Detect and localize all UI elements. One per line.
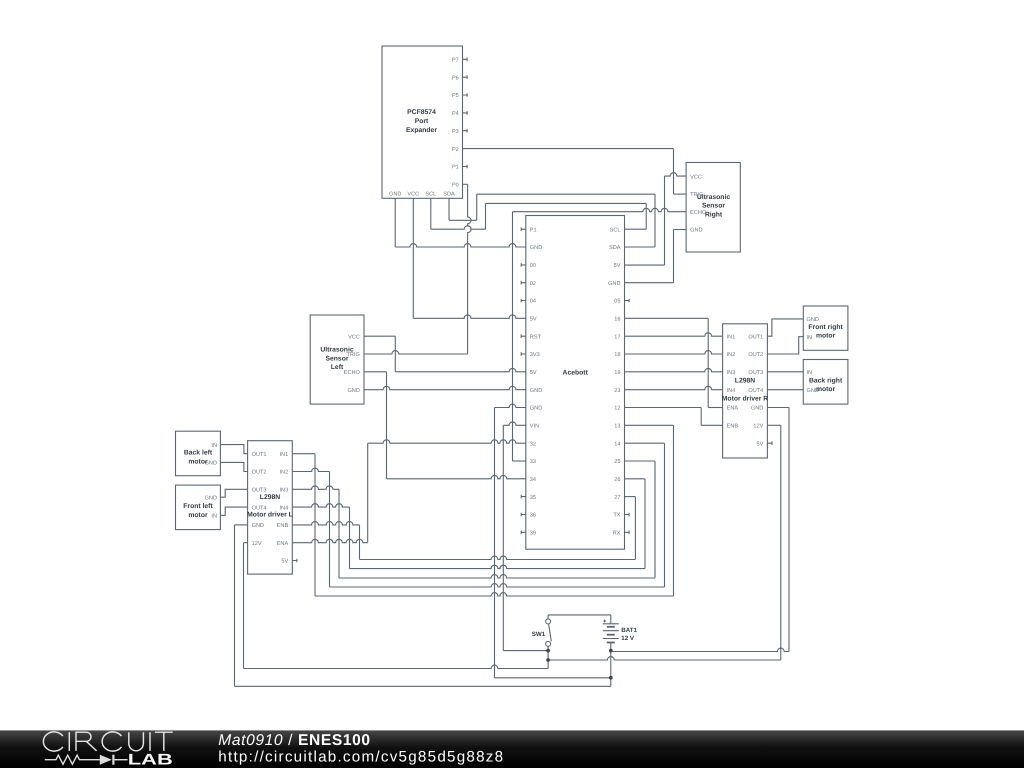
motor M3 front right box <box>803 306 848 350</box>
svg-text:5V: 5V <box>530 317 537 323</box>
wire battery negative lead <box>610 643 612 687</box>
svg-text:33: 33 <box>530 459 536 465</box>
svg-text:motor: motor <box>188 512 208 519</box>
svg-text:SCL: SCL <box>610 227 621 233</box>
svg-text:ENA: ENA <box>727 406 739 412</box>
svg-text:OUT1: OUT1 <box>748 334 763 340</box>
svg-text:Mat0910 / ENES100: Mat0910 / ENES100 <box>218 732 370 749</box>
wire P2 to TRIG right <box>463 148 674 150</box>
wire pin 16 to ENA right <box>625 317 709 319</box>
svg-text:34: 34 <box>530 477 536 483</box>
svg-text:TX: TX <box>613 513 620 519</box>
svg-text:ECHO: ECHO <box>690 210 707 216</box>
svg-text:IN4: IN4 <box>279 505 288 511</box>
svg-text:16: 16 <box>614 317 620 323</box>
wire VCC PCF8574 to Acebott 5V <box>412 198 414 318</box>
svg-text:SCL: SCL <box>425 191 436 197</box>
svg-text:IN: IN <box>211 514 217 520</box>
svg-text:IN: IN <box>211 443 217 449</box>
svg-text:GND: GND <box>807 317 819 323</box>
svg-text:Right: Right <box>705 211 723 218</box>
wire VCC ultrasonic left to Acebott 5V <box>364 335 395 337</box>
svg-text:ENA: ENA <box>277 541 289 547</box>
svg-text:http://circuitlab.com/cv5g85d5: http://circuitlab.com/cv5g85d5g88z8 <box>218 749 504 766</box>
svg-text:39: 39 <box>530 531 536 537</box>
svg-text:ECHO: ECHO <box>344 370 361 376</box>
battery BAT1 12V <box>603 623 619 625</box>
svg-text:VCC: VCC <box>348 334 360 340</box>
wire GND ultrasonic left to Acebott GND <box>364 386 526 389</box>
svg-text:ENB: ENB <box>277 523 289 529</box>
ultrasonic sensor left box U4 <box>310 315 364 404</box>
wire pin 14 to IN2 left <box>625 442 665 444</box>
svg-text:GND: GND <box>807 388 819 394</box>
svg-text:Front left: Front left <box>183 503 213 510</box>
wire pin 12 to ENB right <box>625 407 702 409</box>
svg-text:TRIG: TRIG <box>347 352 360 358</box>
svg-text:GND: GND <box>252 523 264 529</box>
svg-text:26: 26 <box>614 477 620 483</box>
svg-text:Motor driver R: Motor driver R <box>722 395 769 402</box>
svg-text:RST: RST <box>530 334 542 340</box>
svg-text:VIN: VIN <box>530 424 539 430</box>
wire ECHO right to pin 33 <box>513 208 687 211</box>
svg-text:17: 17 <box>614 334 620 340</box>
wire SCL net <box>430 198 432 229</box>
svg-text:P5: P5 <box>452 93 459 99</box>
motor driver right box U5 L298N <box>723 324 768 458</box>
svg-text:+: + <box>603 619 607 625</box>
motor driver left box U6 L298N <box>248 441 293 574</box>
svg-text:12V: 12V <box>753 424 763 430</box>
junction battery negative <box>609 649 613 653</box>
svg-text:OUT3: OUT3 <box>748 370 763 376</box>
svg-text:P4: P4 <box>452 111 459 117</box>
svg-text:OUT3: OUT3 <box>252 488 267 494</box>
wire pin 27 to ENB left <box>625 496 636 498</box>
svg-text:12 V: 12 V <box>621 635 635 642</box>
svg-text:GND: GND <box>389 191 401 197</box>
wire Acebott GND to battery negative <box>495 404 526 407</box>
svg-text:GND: GND <box>530 388 542 394</box>
svg-text:IN: IN <box>807 335 813 341</box>
footer bar <box>0 730 1024 768</box>
junction battery negative to GND rail <box>609 676 613 680</box>
wire GND ultrasonic right to Acebott GND <box>674 229 687 231</box>
wire GND right driver to battery negative <box>767 407 789 409</box>
svg-text:35: 35 <box>530 495 536 501</box>
wire 5V Acebott to VCC ultrasonic right <box>625 264 665 266</box>
svg-text:GND: GND <box>608 281 620 287</box>
svg-text:23: 23 <box>614 388 620 394</box>
svg-text:13: 13 <box>614 424 620 430</box>
svg-text:LAB: LAB <box>128 752 173 768</box>
wire ECHO left to pin 34 <box>364 371 387 373</box>
svg-text:32: 32 <box>530 441 536 447</box>
svg-text:VCC: VCC <box>407 191 419 197</box>
svg-text:Front right: Front right <box>808 324 843 331</box>
motor M4 back right box <box>803 360 848 405</box>
wire pin 18 to IN2 right <box>625 351 723 354</box>
wire pin 32 to ENA left <box>368 440 526 443</box>
svg-text:OUT4: OUT4 <box>252 505 267 511</box>
svg-text:SW1: SW1 <box>532 631 546 638</box>
svg-text:02: 02 <box>530 281 536 287</box>
op-amp U1 PCF8574 Port Expander box <box>382 46 463 198</box>
svg-text:L298N: L298N <box>735 377 755 384</box>
svg-text:OUT1: OUT1 <box>252 452 267 458</box>
wire OUT3 left to front left GND <box>220 489 247 497</box>
svg-text:GND: GND <box>751 406 763 412</box>
svg-text:19: 19 <box>614 370 620 376</box>
svg-text:3V3: 3V3 <box>530 352 540 358</box>
wire pin 19 to IN3 right <box>625 368 723 371</box>
junction at switch bottom <box>546 649 550 653</box>
wire P0 to TRIG left <box>463 183 468 185</box>
svg-text:Back left: Back left <box>184 450 213 457</box>
svg-text:VCC: VCC <box>690 174 702 180</box>
svg-text:P1: P1 <box>530 227 537 233</box>
svg-text:5V: 5V <box>756 441 763 447</box>
wire OUT2 right to front right IN <box>767 337 803 354</box>
wire GND PCF8574 to Acebott GND <box>394 198 396 247</box>
svg-text:12: 12 <box>614 406 620 412</box>
svg-text:IN2: IN2 <box>727 352 736 358</box>
svg-text:GND: GND <box>530 406 542 412</box>
wire OUT4 left to front left IN <box>220 507 247 515</box>
wire OUT1 right to front right GND <box>767 319 803 336</box>
svg-text:18: 18 <box>614 352 620 358</box>
svg-text:SDA: SDA <box>609 245 621 251</box>
svg-text:BAT1: BAT1 <box>621 627 637 634</box>
svg-text:05: 05 <box>614 299 620 305</box>
svg-text:Expander: Expander <box>406 127 437 134</box>
svg-text:12V: 12V <box>252 541 262 547</box>
svg-text:GND: GND <box>205 495 217 501</box>
svg-text:IN: IN <box>807 370 813 376</box>
svg-text:PCF8574: PCF8574 <box>407 109 436 116</box>
svg-text:L298N: L298N <box>260 494 280 501</box>
CircuitLab logo resistor diode glyph <box>45 755 100 764</box>
wire OUT2 left to back left GND <box>220 462 247 471</box>
svg-text:GND: GND <box>530 245 542 251</box>
svg-text:5V: 5V <box>281 559 288 565</box>
svg-text:Sensor: Sensor <box>702 203 725 210</box>
motor M2 front left box <box>176 485 221 529</box>
wire pin 26 to IN4 left <box>625 478 646 480</box>
svg-text:GND: GND <box>690 228 702 234</box>
wire OUT4 right to back right GND <box>767 389 803 391</box>
svg-text:IN3: IN3 <box>279 488 288 494</box>
svg-text:GND: GND <box>205 461 217 467</box>
svg-text:GND: GND <box>347 388 359 394</box>
CircuitLab logo CIRCUIT letters <box>43 732 172 751</box>
svg-text:36: 36 <box>530 513 536 519</box>
wire switch top to battery plus <box>547 615 549 619</box>
svg-text:5V: 5V <box>530 370 537 376</box>
svg-text:IN4: IN4 <box>727 388 736 394</box>
svg-text:OUT2: OUT2 <box>252 470 267 476</box>
svg-text:TRIG: TRIG <box>690 192 703 198</box>
svg-text:IN3: IN3 <box>727 370 736 376</box>
wire switch node vertical <box>547 647 549 669</box>
svg-text:IN1: IN1 <box>727 334 736 340</box>
svg-text:14: 14 <box>614 441 620 447</box>
wire pin 23 to IN4 right <box>625 386 723 389</box>
wire pin 25 to IN3 left <box>625 460 656 462</box>
svg-text:ENB: ENB <box>727 424 739 430</box>
svg-text:motor: motor <box>816 333 836 340</box>
svg-text:25: 25 <box>614 459 620 465</box>
svg-text:Acebott: Acebott <box>563 369 589 376</box>
svg-text:00: 00 <box>530 263 536 269</box>
wire OUT3 right to back right IN <box>767 371 803 373</box>
motor M1 back left box <box>176 431 221 476</box>
junction switch to 12V rail <box>546 658 550 662</box>
svg-text:04: 04 <box>530 299 536 305</box>
op-amp U2 Acebott controller box <box>526 216 625 550</box>
svg-text:RX: RX <box>613 531 621 537</box>
svg-text:Sensor: Sensor <box>325 355 348 362</box>
svg-text:Port: Port <box>415 118 429 125</box>
wire OUT1 left to back left IN <box>220 445 247 454</box>
svg-text:5V: 5V <box>614 263 621 269</box>
svg-text:IN2: IN2 <box>279 470 288 476</box>
svg-text:P3: P3 <box>452 129 459 135</box>
svg-text:P6: P6 <box>452 75 459 81</box>
svg-text:P7: P7 <box>452 58 459 64</box>
wire 12V right driver to switch <box>767 424 780 426</box>
svg-text:P0: P0 <box>452 183 459 189</box>
svg-text:27: 27 <box>614 495 620 501</box>
svg-text:Back right: Back right <box>809 377 843 384</box>
svg-text:Left: Left <box>331 364 344 371</box>
svg-text:OUT4: OUT4 <box>748 388 763 394</box>
wire pin 13 to IN1 left <box>625 424 674 426</box>
svg-text:IN1: IN1 <box>279 452 288 458</box>
svg-text:Motor driver L: Motor driver L <box>247 511 293 518</box>
wire VIN to switch <box>503 422 526 425</box>
wire SDA net <box>448 198 450 220</box>
wire pin 17 to IN1 right <box>625 333 723 336</box>
wire 12V left driver to switch <box>244 542 248 544</box>
svg-text:SDA: SDA <box>443 191 455 197</box>
svg-text:OUT2: OUT2 <box>748 352 763 358</box>
ultrasonic sensor right box U3 <box>686 163 740 253</box>
svg-text:P2: P2 <box>452 147 459 153</box>
switch SW1 <box>546 619 551 624</box>
svg-text:P1: P1 <box>452 165 459 171</box>
wire GND left driver to battery negative <box>235 524 248 526</box>
